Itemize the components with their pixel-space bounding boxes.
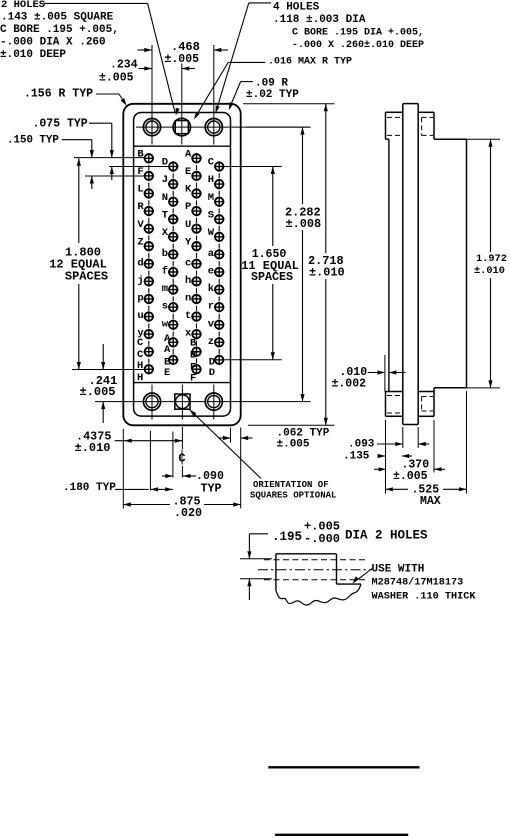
svg-text:L: L (137, 184, 143, 196)
svg-text:±.010: ±.010 (75, 441, 111, 455)
bottom middle hole vertical center line (181, 385, 183, 420)
pin column dash (148, 253, 150, 258)
svg-text:H: H (137, 360, 143, 372)
svg-text:N: N (162, 192, 168, 204)
svg-text:DIA 2 HOLES: DIA 2 HOLES (345, 529, 428, 543)
svg-text:n: n (185, 293, 191, 305)
svg-text:±.005: ±.005 (393, 470, 428, 483)
pin column dash (172, 261, 174, 266)
row C extension line right (224, 166, 282, 168)
svg-text:t: t (185, 310, 191, 322)
svg-text:.016 MAX R TYP: .016 MAX R TYP (268, 57, 352, 68)
svg-text:H: H (208, 174, 214, 186)
svg-text:e: e (208, 266, 214, 278)
leader 4 holes (249, 2, 271, 4)
pin column dash (148, 183, 150, 188)
svg-text:.143 ±.005 SQUARE: .143 ±.005 SQUARE (1, 12, 114, 24)
center line below (181, 427, 183, 449)
svg-text:a: a (208, 248, 215, 260)
svg-text:.135: .135 (343, 451, 370, 463)
svg-text:d: d (137, 257, 143, 269)
pin column dash (218, 279, 220, 284)
row DD extension line right (225, 359, 282, 361)
svg-text:USE WITH: USE WITH (372, 564, 425, 576)
pin column dash (172, 279, 174, 284)
svg-text:W: W (208, 227, 215, 239)
svg-text:C: C (137, 337, 144, 349)
pin column dash (218, 173, 220, 178)
pin column dash (148, 200, 150, 205)
svg-text:±.005: ±.005 (80, 385, 116, 399)
svg-text:±.02 TYP: ±.02 TYP (246, 89, 299, 101)
svg-text:k: k (208, 283, 214, 295)
extension line inner right below (230, 428, 232, 443)
row B extension line (74, 157, 144, 159)
extension line side flange right below (433, 420, 435, 473)
top hole center line (136, 126, 311, 128)
svg-text:.150 TYP: .150 TYP (7, 134, 59, 146)
svg-text:-.000: -.000 (304, 532, 340, 546)
side view body left face (388, 139, 390, 391)
svg-text:.118 ±.003 DIA: .118 ±.003 DIA (273, 14, 366, 26)
pin column dash (148, 218, 150, 223)
pin column dash (148, 306, 150, 311)
svg-text:r: r (208, 301, 214, 313)
bottom right hole vertical center line (213, 385, 215, 420)
pin column dash (172, 191, 174, 196)
top left round hole (143, 119, 160, 136)
svg-text:C: C (208, 157, 215, 169)
pin column dash (218, 349, 220, 354)
pin column dash (172, 349, 174, 354)
svg-text:S: S (208, 209, 214, 221)
pin column dash (196, 358, 198, 363)
leader .156 r (96, 93, 119, 95)
pin column dash (218, 296, 220, 301)
footer line upper (268, 766, 419, 768)
pin column dash (172, 296, 174, 301)
svg-text:f: f (162, 266, 168, 278)
svg-text:.09 R: .09 R (255, 77, 288, 89)
pin column dash (196, 183, 198, 188)
svg-text:M28748/17M18173: M28748/17M18173 (372, 577, 464, 589)
pin column dash (218, 332, 220, 337)
pin column dash (196, 341, 198, 346)
extension line col2 below (172, 432, 174, 478)
side view top flange (386, 111, 403, 113)
top strip divider line (134, 145, 231, 147)
svg-text:.156 R TYP: .156 R TYP (24, 87, 93, 100)
bottom hole center line (95, 401, 311, 403)
pin column dash (196, 253, 198, 258)
svg-text:A: A (185, 149, 192, 161)
svg-text:P: P (185, 201, 191, 213)
leader orientation of squares (190, 410, 262, 479)
extension line side flange left below (385, 420, 387, 494)
svg-text:T: T (162, 209, 168, 221)
leader use with (354, 569, 372, 583)
side view body right block (434, 138, 467, 140)
bottom left hole vertical center line (151, 385, 153, 420)
svg-text:4 HOLES: 4 HOLES (273, 1, 320, 13)
extension line plate right below (417, 427, 419, 448)
front view inner outline (134, 113, 231, 417)
pin column dash (218, 314, 220, 319)
svg-text:SPACES: SPACES (251, 270, 293, 284)
svg-text:D: D (209, 367, 215, 379)
pin column dash (148, 323, 150, 328)
svg-text:WASHER .110 THICK: WASHER .110 THICK (372, 592, 477, 603)
svg-text:h: h (185, 275, 191, 287)
pin column dash (148, 341, 150, 346)
svg-text:B: B (137, 149, 144, 161)
svg-text:C BORE .195 +.005,: C BORE .195 +.005, (0, 24, 119, 36)
svg-text:-.000 DIA X .260: -.000 DIA X .260 (0, 37, 106, 49)
extension line 1.972 bottom (467, 387, 501, 389)
pin column dash (218, 191, 220, 196)
pin column dash (172, 332, 174, 337)
svg-text:s: s (162, 301, 168, 313)
top middle hole vertical center line (181, 64, 183, 145)
svg-text:V: V (137, 219, 144, 231)
svg-text:.195: .195 (272, 530, 302, 544)
svg-text:C BORE .195 DIA +.005,: C BORE .195 DIA +.005, (292, 28, 424, 39)
svg-text:E: E (185, 166, 191, 178)
pin column dash (218, 226, 220, 231)
side view lip extension line (384, 355, 386, 392)
leader .016 (228, 61, 265, 63)
svg-text:X: X (162, 227, 169, 239)
svg-text:±.005: ±.005 (277, 438, 310, 450)
pin column dash (148, 271, 150, 276)
washer break line (276, 584, 361, 605)
svg-text:m: m (162, 283, 168, 295)
extension lines .195 (240, 558, 272, 560)
svg-text:E: E (164, 367, 170, 379)
svg-text:.075 TYP: .075 TYP (33, 117, 88, 130)
pin column dash (172, 208, 174, 213)
footer line lower (275, 834, 408, 836)
svg-text:u: u (137, 310, 143, 322)
svg-text:z: z (208, 336, 214, 348)
svg-text:Z: Z (137, 236, 143, 248)
extension line 2.282 top (246, 126, 311, 128)
pin column dash (172, 173, 174, 178)
pin column dash (172, 244, 174, 249)
svg-text:J: J (162, 174, 168, 186)
extension line 1.972 top (434, 138, 500, 140)
pin column dash (196, 288, 198, 293)
leader .09 r (241, 81, 253, 83)
svg-text:.180 TYP: .180 TYP (63, 482, 116, 494)
pin column dash (148, 358, 150, 363)
side view bottom flange (386, 391, 403, 393)
svg-text:±.008: ±.008 (286, 217, 322, 231)
svg-text:R: R (137, 201, 144, 213)
extension line hole1 below (149, 431, 151, 491)
pin column dash (172, 226, 174, 231)
svg-text:±.010: ±.010 (309, 266, 345, 280)
row F extension line (85, 175, 144, 177)
svg-text:.093: .093 (348, 438, 375, 450)
svg-text:Y: Y (185, 236, 192, 248)
svg-text:2 HOLES: 2 HOLES (1, 0, 45, 11)
bottom right round hole (205, 393, 222, 410)
pin column dash (218, 244, 220, 249)
extension line 2.718 top (243, 103, 335, 105)
svg-text:±.005: ±.005 (99, 71, 134, 84)
extension line plate left below (402, 427, 404, 448)
svg-text:TYP: TYP (201, 481, 222, 495)
svg-text:ORIENTATION OF: ORIENTATION OF (253, 480, 329, 490)
pin column dash (196, 218, 198, 223)
top right round hole (205, 119, 222, 136)
svg-text:M: M (208, 192, 214, 204)
row D extension line (109, 166, 169, 168)
pin column dash (196, 306, 198, 311)
svg-text:±.002: ±.002 (332, 377, 367, 390)
side view bottom flange hidden lines (387, 395, 402, 397)
side view top flange hidden lines (387, 116, 402, 118)
bottom left round hole (143, 393, 160, 410)
pin column dash (148, 288, 150, 293)
svg-text:U: U (185, 219, 191, 231)
bottom strip divider line (134, 382, 231, 384)
pin column dash (148, 235, 150, 240)
svg-text:b: b (162, 248, 168, 260)
pin column dash (218, 261, 220, 266)
pin column dash (196, 165, 198, 170)
washer hole hidden lines (264, 559, 367, 561)
svg-text:H: H (137, 372, 143, 384)
pin column dash (196, 200, 198, 205)
svg-text:±.010: ±.010 (474, 265, 505, 277)
pin column dash (148, 165, 150, 170)
svg-text:c: c (185, 257, 191, 269)
svg-text:.020: .020 (174, 506, 202, 520)
extension line left edge below (122, 429, 124, 509)
side view center plate (402, 104, 404, 425)
top right hole vertical center line (213, 45, 215, 145)
svg-text:±.010 DEEP: ±.010 DEEP (0, 49, 66, 61)
pin column dash (172, 314, 174, 319)
top left hole vertical center line (151, 45, 153, 145)
svg-text:p: p (137, 293, 143, 305)
pin column dash (196, 235, 198, 240)
extension line 2.718 bottom (248, 424, 335, 426)
extension line side body right below (466, 391, 468, 494)
extension line right edge below (240, 428, 242, 509)
top middle square hole with circle (173, 118, 190, 135)
leader .195 (249, 533, 268, 535)
svg-text:±.005: ±.005 (165, 53, 200, 66)
svg-text:j: j (137, 275, 143, 287)
svg-text:.234: .234 (110, 58, 138, 71)
svg-text:w: w (162, 318, 169, 330)
svg-text:MAX: MAX (420, 495, 441, 508)
svg-text:-.000 X .260±.010 DEEP: -.000 X .260±.010 DEEP (292, 40, 424, 51)
svg-text:SPACES: SPACES (65, 270, 108, 284)
row HH extension line (72, 369, 144, 371)
svg-text:SQUARES OPTIONAL: SQUARES OPTIONAL (250, 490, 336, 500)
svg-text:v: v (208, 318, 215, 330)
washer outline (276, 553, 337, 555)
bottom middle square hole with circle (175, 394, 190, 409)
leader 2 holes (44, 2, 148, 4)
svg-text:K: K (185, 184, 192, 196)
pin column dash (218, 208, 220, 213)
pin column dash (196, 323, 198, 328)
pin column dash (196, 271, 198, 276)
front view outer outline (123, 104, 240, 426)
svg-text:1.972: 1.972 (476, 253, 507, 265)
